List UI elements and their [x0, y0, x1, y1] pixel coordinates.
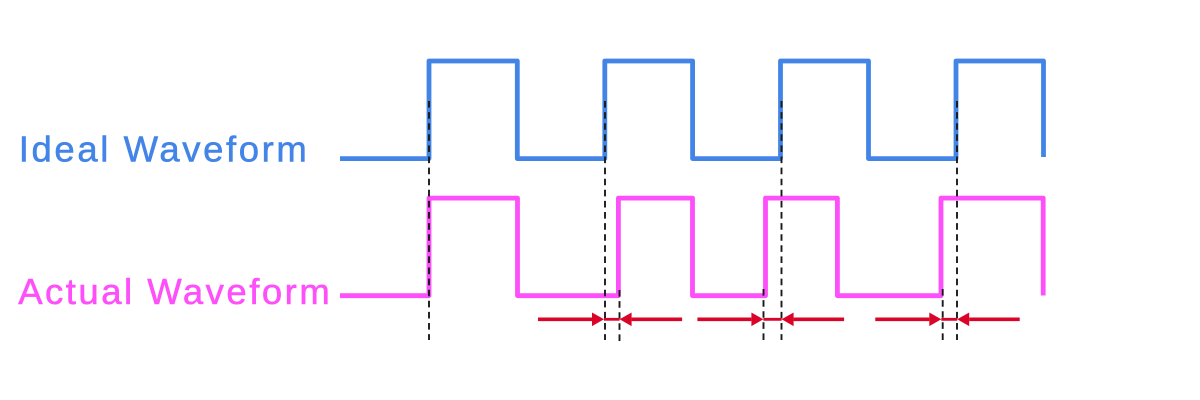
svg-text:Actual Waveform: Actual Waveform	[18, 271, 332, 312]
svg-text:Ideal Waveform: Ideal Waveform	[19, 129, 310, 170]
